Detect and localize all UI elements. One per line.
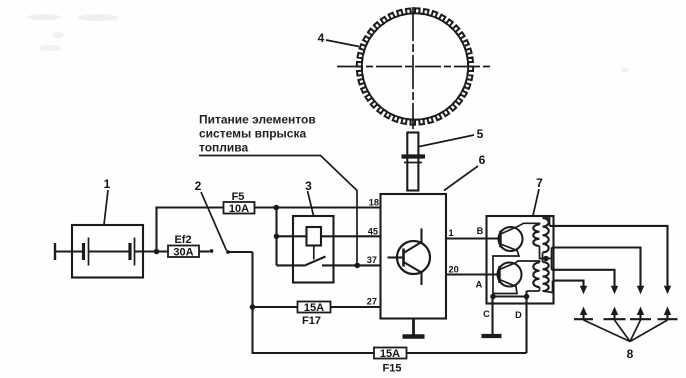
svg-text:5: 5: [477, 127, 484, 141]
svg-text:10A: 10A: [229, 203, 249, 215]
svg-text:1: 1: [449, 228, 454, 238]
svg-text:F17: F17: [302, 315, 321, 327]
svg-text:8: 8: [627, 347, 634, 361]
svg-text:D: D: [515, 310, 522, 320]
svg-text:2: 2: [195, 179, 202, 193]
svg-text:топлива: топлива: [199, 141, 249, 155]
svg-text:4: 4: [318, 31, 325, 45]
svg-text:27: 27: [367, 297, 377, 307]
svg-text:Ef2: Ef2: [174, 234, 191, 246]
svg-text:A: A: [476, 280, 483, 290]
svg-text:1: 1: [104, 177, 111, 191]
svg-text:18: 18: [369, 198, 379, 208]
svg-text:3: 3: [305, 179, 312, 193]
svg-text:F5: F5: [232, 191, 245, 203]
svg-text:20: 20: [449, 265, 459, 275]
svg-text:7: 7: [536, 176, 543, 190]
svg-text:B: B: [477, 226, 484, 236]
svg-text:37: 37: [367, 255, 377, 265]
svg-text:Питание элементов: Питание элементов: [199, 113, 316, 127]
svg-text:F15: F15: [383, 362, 402, 374]
svg-text:30A: 30A: [173, 246, 193, 258]
svg-text:C: C: [483, 309, 490, 319]
svg-text:15A: 15A: [380, 348, 400, 360]
svg-text:15A: 15A: [304, 302, 324, 314]
svg-text:45: 45: [368, 226, 378, 236]
svg-text:системы впрыска: системы впрыска: [199, 127, 306, 141]
svg-text:6: 6: [479, 153, 486, 167]
